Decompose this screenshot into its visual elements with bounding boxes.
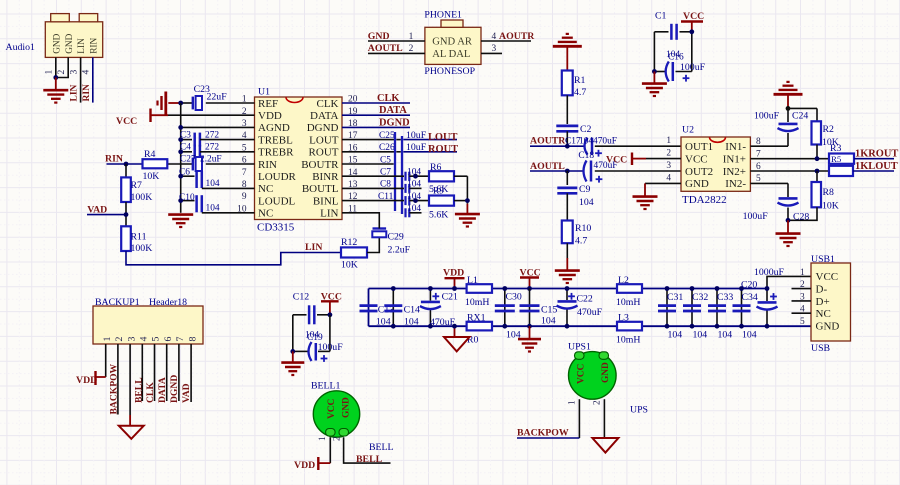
svg-text:100K: 100K	[131, 192, 153, 203]
svg-text:2: 2	[666, 149, 671, 159]
svg-text:C29: C29	[388, 232, 404, 243]
svg-text:BOUTR: BOUTR	[301, 159, 339, 171]
net LOUT	[853, 170, 894, 172]
svg-text:104: 104	[668, 329, 683, 340]
pin 1 wire	[368, 40, 425, 42]
pin 1 wire	[55, 57, 57, 77]
connector BACKUP1 Header18	[93, 306, 203, 344]
svg-text:AOUTL: AOUTL	[368, 43, 403, 54]
svg-text:BELL: BELL	[369, 442, 394, 453]
wire R8 to node	[788, 207, 817, 220]
ground (left) at REF	[156, 101, 158, 106]
svg-text:4.7: 4.7	[575, 236, 587, 247]
svg-text:104: 104	[206, 179, 220, 189]
capacitor C29 2.2uF	[373, 227, 387, 229]
resistor R11 100K	[121, 226, 131, 251]
junction	[290, 349, 295, 354]
svg-text:R4: R4	[144, 149, 156, 160]
svg-text:U1: U1	[258, 87, 270, 98]
svg-text:VCC: VCC	[685, 153, 708, 165]
power ground arrow	[454, 326, 456, 337]
svg-text:100uF: 100uF	[754, 110, 780, 121]
capacitor C2	[556, 125, 578, 128]
junction	[53, 75, 58, 80]
svg-text:C31: C31	[667, 292, 683, 303]
wire U1 pin11	[342, 213, 379, 229]
capacitor C17 470uF	[585, 138, 588, 155]
svg-text:272: 272	[205, 130, 219, 140]
svg-text:CLK: CLK	[317, 98, 339, 110]
net ROUT	[854, 158, 894, 160]
svg-text:3: 3	[492, 44, 497, 54]
svg-text:3: 3	[68, 70, 79, 75]
ground below C15	[527, 324, 532, 329]
svg-text:IN2-: IN2-	[725, 178, 746, 190]
svg-text:USB: USB	[811, 343, 831, 354]
svg-text:BINL: BINL	[313, 195, 339, 207]
svg-text:VCC: VCC	[327, 398, 337, 419]
capacitor C14 104	[392, 289, 394, 327]
svg-text:C21: C21	[442, 292, 458, 303]
capacitor C4 272	[181, 151, 192, 153]
capacitor C3 272	[181, 139, 192, 141]
USB pin stubs	[792, 288, 812, 290]
junction	[565, 169, 570, 174]
svg-text:VAD: VAD	[181, 383, 192, 403]
svg-text:C34: C34	[742, 292, 758, 303]
power ground arrow	[592, 438, 618, 453]
svg-text:LOUDL: LOUDL	[258, 195, 296, 207]
svg-text:4: 4	[666, 173, 671, 183]
resistor R7 100K	[121, 177, 131, 202]
svg-text:U2: U2	[682, 125, 694, 136]
svg-text:Audio1: Audio1	[6, 42, 35, 53]
svg-text:IN1+: IN1+	[723, 153, 746, 165]
svg-text:BELL: BELL	[134, 377, 145, 403]
pin 2 wire BACKPOW	[117, 344, 119, 415]
svg-text:VDD: VDD	[443, 268, 464, 279]
svg-text:VDD: VDD	[76, 375, 97, 386]
ground	[653, 72, 655, 84]
svg-text:ROUT: ROUT	[428, 144, 458, 155]
ground	[644, 183, 646, 196]
svg-text:C9: C9	[579, 184, 591, 195]
svg-text:BOUTL: BOUTL	[302, 183, 339, 195]
svg-text:R12: R12	[341, 237, 357, 248]
svg-text:VCC: VCC	[816, 271, 839, 283]
svg-text:GND: GND	[65, 33, 75, 53]
bell BELL1	[313, 391, 359, 437]
resistor R5 1K	[829, 166, 853, 176]
svg-text:UPS1: UPS1	[568, 342, 591, 353]
svg-text:470uF: 470uF	[577, 307, 603, 318]
svg-text:4.7: 4.7	[574, 87, 586, 98]
svg-text:470uF: 470uF	[593, 137, 617, 147]
svg-text:OUT1: OUT1	[685, 141, 713, 153]
wire U2 pin7 ROUT	[750, 158, 829, 160]
svg-text:Header18: Header18	[149, 297, 187, 308]
resistor R4 10K	[143, 159, 168, 168]
svg-text:C30: C30	[506, 292, 522, 303]
wire LIN run	[126, 251, 341, 265]
rail (AGND)	[180, 103, 182, 213]
svg-text:1KROUT: 1KROUT	[855, 148, 898, 159]
svg-text:1: 1	[409, 32, 414, 42]
svg-text:VDD: VDD	[258, 110, 282, 122]
svg-text:4: 4	[139, 337, 150, 342]
svg-text:4: 4	[81, 70, 92, 75]
svg-text:CD3315: CD3315	[257, 222, 295, 234]
svg-text:1KLOUT: 1KLOUT	[855, 161, 898, 172]
junction	[786, 218, 791, 223]
ground	[168, 213, 193, 216]
svg-text:DATA: DATA	[157, 377, 168, 403]
svg-text:LIN: LIN	[70, 84, 80, 101]
wire CLK	[342, 102, 410, 104]
ground	[566, 243, 568, 259]
svg-text:VAD: VAD	[87, 204, 107, 215]
wire U2 pin6 LOUT	[750, 170, 829, 172]
junction	[786, 106, 791, 111]
svg-text:TREBL: TREBL	[258, 134, 293, 146]
svg-text:GND: GND	[685, 178, 709, 190]
svg-text:ROUT: ROUT	[309, 147, 339, 159]
wire UPS pin2	[603, 399, 605, 438]
svg-text:470uF: 470uF	[430, 317, 456, 328]
wire BELL pin2	[344, 437, 391, 463]
capacitor C1	[670, 24, 673, 40]
wire	[367, 238, 379, 253]
pin 3 wire LIN	[80, 57, 82, 102]
svg-text:R7: R7	[131, 180, 143, 191]
svg-text:C1: C1	[655, 11, 667, 22]
wire left	[653, 32, 655, 72]
svg-text:D+: D+	[816, 296, 830, 308]
svg-text:AOUTR: AOUTR	[499, 31, 535, 42]
pin 3 wire BELL	[129, 344, 131, 415]
svg-text:LIN: LIN	[320, 208, 338, 220]
resistor R1	[562, 71, 573, 96]
svg-text:GND: GND	[601, 362, 611, 383]
svg-text:7: 7	[242, 168, 247, 178]
svg-text:C8: C8	[380, 180, 391, 190]
junction	[124, 212, 129, 217]
wire right	[691, 32, 693, 72]
svg-text:NC: NC	[258, 208, 273, 220]
svg-text:AGND: AGND	[258, 122, 290, 134]
svg-text:LOUT: LOUT	[428, 132, 458, 143]
junction	[565, 144, 570, 149]
svg-text:C25: C25	[379, 131, 395, 141]
svg-text:LOUDR: LOUDR	[258, 171, 297, 183]
svg-text:10mH: 10mH	[616, 335, 641, 346]
svg-text:10K: 10K	[822, 201, 839, 212]
svg-text:OUT2: OUT2	[685, 166, 713, 178]
ground	[55, 78, 57, 90]
svg-text:TDA2822: TDA2822	[682, 194, 727, 206]
wire	[566, 131, 568, 146]
svg-text:10uF: 10uF	[406, 130, 427, 141]
junction	[328, 312, 333, 317]
capacitor 104 on pin11 row	[404, 208, 406, 217]
svg-text:DGND: DGND	[307, 122, 339, 134]
top rail wire	[369, 288, 467, 290]
connector Audio1	[45, 14, 102, 58]
svg-text:104: 104	[376, 317, 391, 328]
capacitor C26 10uF	[342, 151, 394, 153]
svg-text:PHONE1: PHONE1	[424, 10, 462, 21]
IC U1 CD3315	[255, 87, 343, 234]
U1 pin numbers	[237, 95, 358, 215]
junction	[124, 162, 129, 167]
svg-text:GND: GND	[53, 33, 63, 53]
svg-text:C2: C2	[580, 124, 592, 135]
svg-text:2: 2	[409, 44, 414, 54]
svg-text:C24: C24	[792, 110, 808, 121]
svg-text:BACKPOW: BACKPOW	[517, 428, 569, 439]
svg-text:1: 1	[317, 436, 327, 441]
wire	[566, 95, 568, 124]
wire U1 pin10	[202, 212, 255, 214]
svg-text:C22: C22	[577, 294, 593, 305]
svg-text:22uF: 22uF	[207, 92, 228, 103]
svg-text:1: 1	[102, 337, 113, 342]
capacitor C31 104	[666, 289, 668, 327]
capacitor C5 plates	[394, 132, 396, 211]
capacitor C24 100uF	[787, 108, 789, 122]
ground	[466, 204, 468, 214]
svg-text:BACKPOW: BACKPOW	[109, 363, 120, 414]
svg-text:C5: C5	[380, 156, 391, 166]
wire DGND	[342, 126, 410, 128]
svg-text:8: 8	[187, 337, 198, 342]
wire	[788, 107, 817, 109]
svg-text:2: 2	[800, 280, 805, 290]
svg-text:3: 3	[126, 337, 137, 342]
resistor R8 10K	[816, 171, 818, 182]
wire AOUTL	[530, 170, 583, 172]
pin 3 wire	[481, 52, 502, 54]
pin 1 wire	[105, 344, 107, 377]
svg-text:DATA: DATA	[310, 110, 339, 122]
junction	[652, 69, 657, 74]
capacitor C12	[308, 305, 311, 324]
svg-text:1: 1	[567, 400, 577, 405]
svg-text:USB1: USB1	[811, 254, 835, 265]
svg-text:C26: C26	[379, 143, 395, 153]
connector USB1	[811, 263, 851, 341]
pin 4 wire	[141, 344, 143, 401]
svg-text:10K: 10K	[143, 171, 160, 182]
capacitor C25 10uF	[342, 139, 394, 141]
pin 5 wire	[154, 344, 156, 401]
capacitor C8 104	[342, 187, 404, 189]
svg-text:C20: C20	[741, 279, 757, 290]
pin numbers 1 2 3 4	[409, 32, 497, 54]
svg-text:IN2+: IN2+	[723, 166, 746, 178]
svg-text:DATA: DATA	[379, 105, 407, 116]
svg-text:C7: C7	[380, 168, 391, 178]
svg-text:10mH: 10mH	[465, 297, 490, 308]
capacitor C28 100uF	[779, 197, 798, 200]
svg-text:104: 104	[404, 317, 419, 328]
svg-text:2: 2	[592, 400, 602, 405]
svg-text:2: 2	[56, 70, 67, 75]
svg-text:C27: C27	[180, 155, 196, 165]
svg-text:R5: R5	[831, 154, 842, 164]
svg-text:CLK: CLK	[377, 93, 400, 104]
op-amp U2 TDA2822	[681, 125, 750, 207]
svg-text:AOUTL: AOUTL	[530, 161, 565, 172]
bottom rail wire	[369, 325, 467, 327]
svg-text:2: 2	[332, 436, 342, 441]
USB pin numbers	[800, 268, 805, 327]
svg-text:100K: 100K	[131, 243, 153, 254]
svg-text:BINR: BINR	[312, 171, 339, 183]
svg-text:10uF: 10uF	[406, 142, 427, 153]
svg-text:IN1-: IN1-	[725, 141, 746, 153]
svg-text:6: 6	[163, 337, 174, 342]
capacitor C23 22uF	[181, 102, 193, 104]
svg-text:2.2uF: 2.2uF	[200, 155, 222, 165]
pin numbers	[44, 70, 92, 75]
svg-text:UPS: UPS	[630, 405, 648, 416]
svg-text:GND: GND	[368, 31, 390, 42]
ground (inverted) top right	[786, 81, 789, 83]
svg-text:1: 1	[44, 70, 55, 75]
pin 4 wire RIN	[92, 57, 94, 102]
svg-text:REF: REF	[258, 98, 278, 110]
svg-text:4: 4	[800, 305, 805, 315]
svg-text:LOUT: LOUT	[309, 134, 339, 146]
svg-text:5: 5	[151, 337, 162, 342]
svg-text:RIN: RIN	[89, 38, 99, 54]
resistor R12 10K	[341, 247, 367, 257]
svg-text:C15: C15	[541, 305, 557, 316]
svg-text:NC: NC	[258, 183, 273, 195]
resistor R2 10K	[812, 121, 822, 144]
svg-text:2.2uF: 2.2uF	[388, 245, 411, 256]
wire to ground	[454, 175, 467, 177]
svg-text:GND: GND	[816, 320, 840, 332]
ground	[292, 351, 294, 362]
svg-text:DGND: DGND	[169, 375, 180, 403]
wire U2 pin8	[750, 145, 788, 147]
svg-text:C32: C32	[692, 292, 708, 303]
svg-text:104: 104	[718, 329, 733, 340]
capacitor C19 100uF	[309, 342, 312, 361]
svg-text:VCC: VCC	[116, 116, 137, 127]
svg-text:GND: GND	[342, 397, 352, 418]
wire BOUTR	[342, 163, 394, 165]
svg-text:C12: C12	[293, 292, 309, 303]
svg-text:BACKUP1: BACKUP1	[95, 297, 140, 308]
svg-text:9: 9	[242, 192, 247, 202]
resistor R10	[562, 221, 573, 244]
wire VAD	[87, 214, 126, 216]
resistor R9 5.6K	[429, 196, 454, 206]
svg-text:VDD: VDD	[294, 460, 315, 471]
svg-text:2: 2	[114, 337, 125, 342]
svg-text:C16: C16	[668, 53, 684, 63]
svg-text:GND AR: GND AR	[432, 37, 473, 48]
wire	[125, 164, 127, 177]
svg-text:BELL1: BELL1	[311, 380, 340, 391]
svg-text:C14: C14	[404, 305, 420, 316]
capacitor C18 470uF	[584, 161, 587, 182]
capacitor C27 2.2uF	[167, 163, 193, 165]
svg-text:104: 104	[206, 203, 220, 213]
capacitor C32 104	[691, 289, 693, 327]
svg-text:7: 7	[175, 337, 186, 342]
wire left	[292, 315, 294, 352]
svg-text:VCC: VCC	[606, 155, 627, 166]
wire U1 pin8	[202, 187, 255, 189]
svg-text:R11: R11	[131, 232, 147, 243]
pin 4 wire	[481, 40, 531, 42]
svg-text:1: 1	[666, 136, 671, 146]
capacitor C6 104	[181, 175, 195, 177]
ground (inverted) above R1	[566, 33, 569, 35]
wire	[566, 193, 568, 220]
U2 pin numbers left	[666, 136, 761, 184]
wire U2 pin4	[645, 182, 681, 184]
wire DATA	[342, 114, 410, 116]
wire U1 pin3	[181, 126, 255, 128]
junction	[178, 101, 183, 106]
svg-text:R3: R3	[830, 143, 842, 154]
svg-text:TREBR: TREBR	[258, 147, 294, 159]
svg-text:5.6K: 5.6K	[429, 210, 448, 221]
wire BELL pin1	[329, 437, 331, 463]
svg-text:10mH: 10mH	[616, 297, 641, 308]
svg-text:LIN: LIN	[77, 38, 87, 54]
svg-text:100uF: 100uF	[318, 342, 344, 353]
svg-text:R8: R8	[823, 187, 835, 198]
capacitor C21 470uF	[429, 289, 431, 301]
bell UPS1	[569, 352, 617, 400]
wire UPS pin1	[578, 399, 580, 438]
svg-text:104: 104	[579, 197, 594, 208]
svg-text:RIN: RIN	[258, 159, 277, 171]
capacitor C30 104	[504, 289, 506, 327]
connector PHONE1	[425, 20, 481, 64]
svg-text:104: 104	[742, 329, 757, 340]
svg-text:5: 5	[800, 317, 805, 327]
wire RIN	[107, 163, 143, 165]
capacitor C11 104	[342, 200, 404, 202]
svg-text:AOUTR: AOUTR	[530, 136, 566, 147]
svg-text:PHONESOP: PHONESOP	[424, 66, 475, 77]
svg-text:DGND: DGND	[379, 117, 410, 128]
pin 6 wire	[166, 344, 168, 401]
svg-text:BELL: BELL	[356, 454, 383, 465]
svg-text:AL DAL: AL DAL	[432, 49, 470, 60]
capacitor C7 104	[342, 175, 404, 177]
svg-text:4: 4	[492, 32, 497, 42]
capacitor C9	[566, 171, 568, 185]
capacitor C10 104	[181, 200, 195, 202]
wire AOUTR	[530, 145, 585, 147]
junction	[689, 29, 694, 34]
svg-text:100uF: 100uF	[680, 62, 706, 73]
pin 2 wire	[56, 57, 68, 77]
wire U2 pin5	[750, 182, 788, 184]
pin 8 wire	[190, 344, 192, 402]
left end wire	[368, 289, 370, 327]
capacitor C15 104	[529, 289, 531, 327]
svg-text:RIN: RIN	[82, 84, 92, 102]
